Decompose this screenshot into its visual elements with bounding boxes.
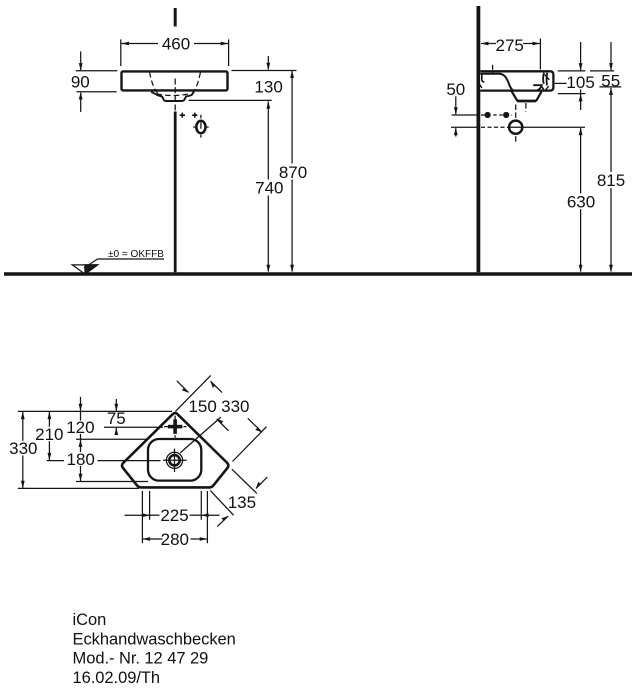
dim 225 right arrowhead	[201, 513, 209, 517]
dim 130/740 shared arrowhead	[266, 101, 270, 109]
dim 50 top extension line	[452, 114, 477, 116]
dim 330 left bottom arrowhead	[21, 481, 25, 489]
svg-text:130: 130	[254, 77, 282, 96]
dim 330 diagonal lower arrowhead	[255, 427, 262, 432]
dim 120/180 shared arrowhead	[79, 439, 83, 447]
bowl bottom protrusion front view	[151, 92, 194, 101]
right vertex extension line B	[233, 427, 267, 462]
dim 460 right extension line	[228, 39, 230, 66]
dim 90 dimension line	[80, 51, 82, 70]
basin front view rectangle	[122, 71, 228, 90]
dim 280 dimension line	[143, 538, 163, 540]
extension line tap hole level	[104, 426, 163, 428]
dim 280 right extension line	[206, 491, 208, 543]
bowl bottom protrusion side view	[511, 91, 541, 102]
dim 105 dimension line	[580, 42, 582, 70]
datum symbol OKFFB	[72, 259, 164, 274]
fixing cross mark right	[192, 113, 197, 118]
fixing cross mark left	[180, 113, 185, 118]
svg-text:120: 120	[66, 418, 94, 437]
dim 130 top arrowhead	[266, 63, 270, 71]
svg-text:75: 75	[107, 409, 126, 428]
faucet cross plan	[164, 426, 187, 428]
dim 105 leader	[555, 82, 567, 84]
apex extension line A	[176, 375, 211, 411]
overflow slot near wall	[482, 74, 485, 82]
dim 330 diagonal upper arrowhead	[210, 381, 215, 388]
dim 55 / 815 dimension line	[610, 42, 612, 70]
bowl rounded rect	[148, 439, 201, 481]
svg-text:225: 225	[160, 506, 188, 525]
dim 330 left top arrowhead	[21, 412, 25, 420]
dim 630 top arrowhead	[579, 128, 583, 136]
svg-text:630: 630	[567, 192, 595, 211]
centerline below front basin (dashed)	[174, 79, 176, 102]
svg-text:275: 275	[496, 36, 524, 55]
dim 50 dimension line	[455, 96, 457, 114]
extension line drain level to 630	[523, 126, 586, 128]
svg-text:16.02.09/Th: 16.02.09/Th	[73, 669, 161, 687]
dim 135 upper arrowhead	[256, 482, 261, 489]
svg-text:55: 55	[601, 71, 620, 90]
dim 150 lower arrowhead	[216, 419, 223, 424]
plan bottom dims	[125, 491, 220, 543]
svg-text:Mod.- Nr. 12 47 29: Mod.- Nr. 12 47 29	[73, 650, 209, 668]
svg-text:870: 870	[279, 163, 307, 182]
dim 50 bottom extension line	[451, 126, 477, 128]
wall corner line above front basin	[174, 8, 177, 27]
dim 130 / 740 dimension line	[267, 56, 269, 70]
dim 210 dimension line	[48, 412, 50, 427]
basin side view body	[480, 71, 553, 90]
ext 135 from bottom corner C2	[210, 491, 233, 516]
bowl front inner curve	[533, 85, 542, 90]
ext 135 from right vertex C1	[232, 469, 257, 493]
extension line bowl top level	[76, 438, 149, 440]
svg-text:180: 180	[67, 450, 95, 469]
svg-text:50: 50	[446, 80, 465, 99]
dim 630 floor arrowhead	[579, 265, 583, 273]
dim 225 left extension line	[149, 491, 151, 520]
tap hole centerline side view	[492, 65, 494, 75]
plan left dims	[18, 397, 172, 489]
extension line top edge right (105/55)	[558, 70, 586, 72]
dim 275 right arrowhead	[533, 42, 541, 46]
dim 870 dimension line	[291, 71, 293, 164]
dim 135 segments	[256, 477, 267, 488]
svg-text:105: 105	[566, 73, 594, 92]
pentagon outline	[122, 413, 228, 487]
dim 630 dimension line	[580, 128, 582, 194]
dim 870 floor arrowhead	[290, 265, 294, 273]
dim 870 top arrowhead	[290, 70, 294, 78]
dim 460 right arrowhead	[221, 42, 229, 46]
dim 55 underline	[599, 86, 621, 88]
dim 150 upper arrowhead	[182, 387, 189, 392]
front rim inner lines	[543, 73, 547, 86]
plan texts	[9, 397, 256, 549]
svg-text:815: 815	[597, 171, 625, 190]
wall corner line below front basin	[174, 112, 177, 273]
wall line side view	[476, 6, 480, 272]
svg-text:Eckhandwaschbecken: Eckhandwaschbecken	[73, 630, 236, 648]
dim 275 left arrowhead	[481, 42, 489, 46]
bowl rim dashed shallow arc	[157, 94, 191, 96]
extension line basin top right	[232, 70, 297, 72]
diagonal leader from drain	[180, 417, 221, 453]
svg-text:90: 90	[71, 73, 90, 92]
dim 225 left arrowhead	[142, 513, 150, 517]
svg-text:330: 330	[9, 439, 37, 458]
drain outlet circle side view	[509, 121, 522, 134]
dim 90 bottom extension line	[77, 91, 117, 93]
extension line bowl bottom level	[189, 99, 272, 101]
dim 90 bottom arrowhead	[79, 92, 83, 100]
dim 120/180 dimension line	[80, 397, 82, 411]
dim 90 top extension line	[76, 70, 118, 72]
svg-text:460: 460	[162, 35, 190, 54]
arrowheads upper views	[79, 42, 613, 273]
extension line bowl bottom level	[76, 481, 148, 483]
dim 105 bottom extension line	[558, 93, 586, 95]
svg-text:150: 150	[188, 397, 216, 416]
dim 275 dimension line	[481, 43, 496, 45]
plan arrowheads	[21, 381, 262, 541]
extension line basin bottom level	[18, 487, 139, 489]
dim 225 right extension line	[200, 491, 202, 520]
drain plan	[166, 452, 182, 468]
dim 225 dimension line	[125, 514, 150, 516]
dim 55 top arrowhead	[609, 63, 613, 71]
extension line apex level	[18, 410, 172, 412]
dim 330 diagonal segments	[211, 381, 222, 392]
svg-text:135: 135	[228, 493, 256, 512]
dim 210 top arrowhead	[48, 412, 52, 420]
dim 50 top arrowhead	[454, 107, 458, 115]
drain pipe dash	[525, 103, 527, 112]
drain centerline side view	[515, 105, 517, 143]
dim 75 bottom arrowhead	[114, 428, 118, 436]
basin bowl dashed arc front view	[150, 72, 201, 94]
dim 280 left arrowhead	[143, 537, 151, 541]
dim 50 bottom arrowhead	[454, 128, 458, 136]
svg-text:±0 = OKFFB: ±0 = OKFFB	[108, 249, 164, 260]
side view interior profile	[480, 74, 513, 91]
dim 75 dimension line	[115, 399, 117, 411]
dim 280 right arrowhead	[200, 537, 208, 541]
fixing dots side view	[481, 114, 512, 116]
dim 135 lower arrowhead	[221, 516, 228, 521]
dim 105 bottom arrowhead	[579, 94, 583, 102]
dim 120 top arrowhead	[79, 404, 83, 412]
product text block	[73, 611, 236, 687]
dim 740 floor arrowhead	[266, 265, 270, 273]
dim 460 left extension line	[120, 39, 122, 66]
dim 75 top arrowhead	[114, 404, 118, 412]
dim 55 bottom arrowhead	[609, 88, 613, 96]
dim 815 floor arrowhead	[609, 265, 613, 273]
dim 150 arrows shafts	[177, 381, 189, 393]
tap hole oval front view	[196, 121, 205, 133]
extension line drain level	[47, 460, 64, 462]
dimension texts upper views	[71, 35, 625, 261]
floor line	[4, 272, 632, 275]
svg-text:210: 210	[35, 425, 63, 444]
dim 180 bottom arrowhead	[79, 474, 83, 482]
dim 210 bottom arrowhead	[48, 453, 52, 461]
dim 275 right extension line	[539, 39, 541, 70]
svg-text:280: 280	[161, 530, 189, 549]
dim 330 left dimension line	[22, 412, 24, 441]
svg-text:330: 330	[221, 397, 249, 416]
dim 105 top arrowhead	[579, 63, 583, 71]
svg-text:iCon: iCon	[73, 611, 107, 629]
dim 460 dimension line	[122, 43, 159, 45]
dim 460 left arrowhead	[122, 42, 130, 46]
dim 280 left extension line	[141, 491, 143, 543]
dim 90 top arrowhead	[79, 63, 83, 71]
